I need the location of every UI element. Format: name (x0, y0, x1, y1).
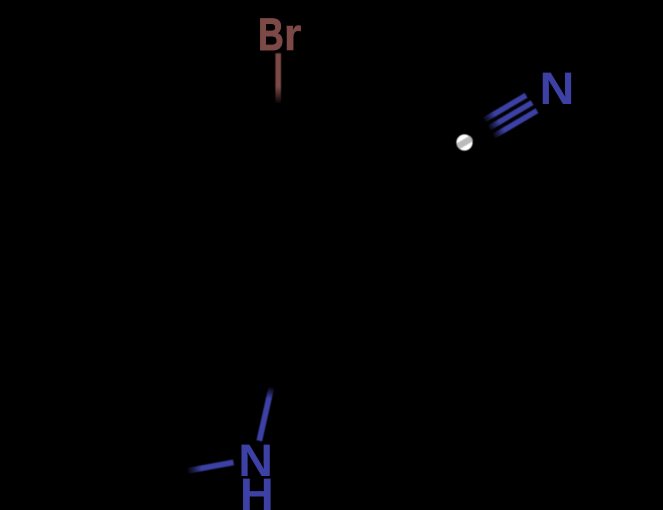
svg-text:N: N (540, 63, 575, 113)
svg-text:r: r (284, 9, 301, 60)
svg-text:B: B (258, 9, 284, 60)
svg-text:H: H (240, 469, 274, 510)
